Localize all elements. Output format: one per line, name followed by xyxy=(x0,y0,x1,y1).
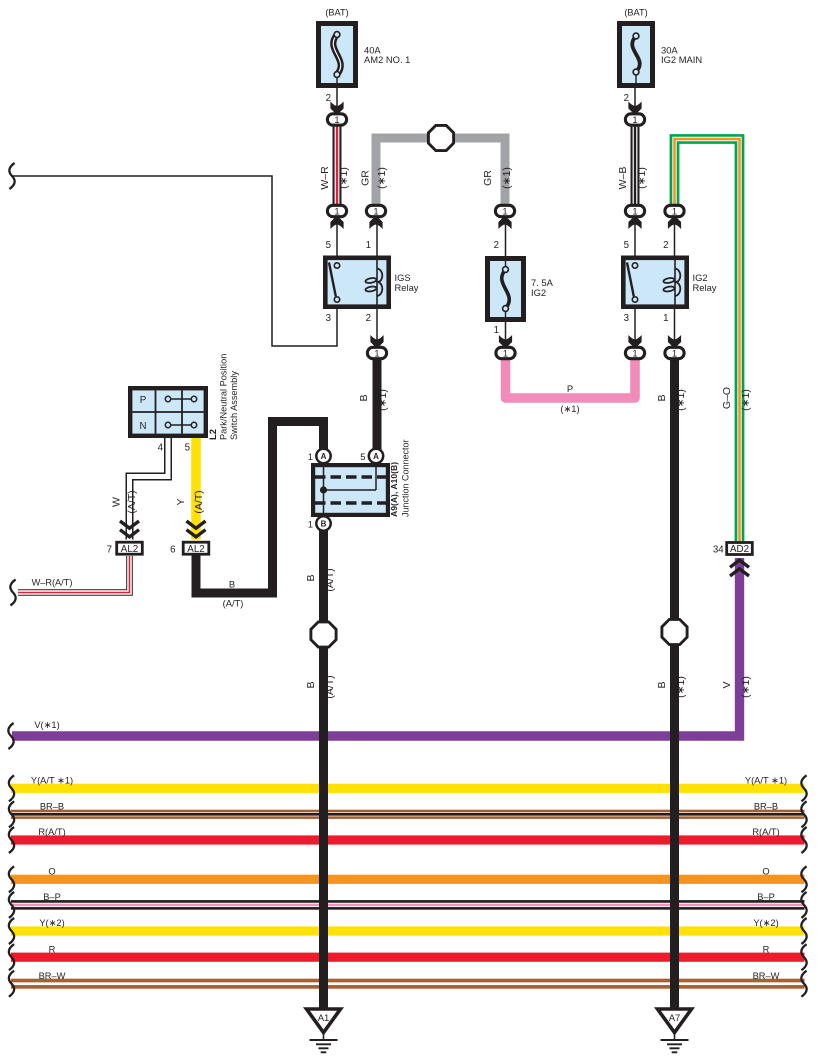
wire B black IGS pin2 to junction 5A xyxy=(373,357,382,450)
in-line connector (1) at 674.5,353 xyxy=(665,347,684,358)
svg-text:BR–B: BR–B xyxy=(40,802,64,812)
svg-text:(∗1): (∗1) xyxy=(740,676,752,698)
svg-text:3: 3 xyxy=(624,313,629,324)
svg-text:5: 5 xyxy=(185,443,190,454)
svg-text:3: 3 xyxy=(326,313,331,324)
svg-text:6: 6 xyxy=(170,545,175,556)
connector AL2 pin7 xyxy=(120,521,139,537)
junction pin B xyxy=(316,516,330,530)
svg-text:R(A/T): R(A/T) xyxy=(752,827,779,837)
relay IG2 xyxy=(621,256,689,310)
svg-text:(BAT): (BAT) xyxy=(624,8,647,18)
svg-text:1: 1 xyxy=(663,313,668,324)
svg-text:Y(∗2): Y(∗2) xyxy=(39,918,64,928)
svg-text:B: B xyxy=(656,394,668,401)
in-line connector (1) at 505.5,353 xyxy=(496,347,515,358)
svg-text:(∗1): (∗1) xyxy=(338,167,350,189)
switch L2 Park/Neutral Position Switch Assembly xyxy=(128,386,208,438)
svg-text:2: 2 xyxy=(624,93,629,104)
wire W-R (white/red) from connector to IGS relay xyxy=(333,124,342,208)
ground A1 xyxy=(307,1009,341,1052)
svg-text:(∗1): (∗1) xyxy=(501,167,513,189)
svg-text:2: 2 xyxy=(366,313,371,324)
in-line connector (1) at 635,119.5 xyxy=(625,114,644,125)
in-line connector (1) at 505,211 xyxy=(495,205,514,216)
fuse 40A AM2 NO.1 xyxy=(316,21,358,88)
in-line connector (1) at 337,211 xyxy=(327,205,346,216)
svg-text:Switch Assembly: Switch Assembly xyxy=(229,371,239,440)
svg-text:Y(∗2): Y(∗2) xyxy=(753,918,778,928)
svg-text:R: R xyxy=(763,944,770,954)
squiggle: V wire left end xyxy=(8,723,13,749)
svg-text:O: O xyxy=(48,867,55,877)
svg-text:A: A xyxy=(321,452,327,461)
svg-text:B: B xyxy=(358,394,370,401)
in-line connector (1) at 337,119.5 xyxy=(327,114,346,125)
svg-text:V(∗1): V(∗1) xyxy=(34,720,59,730)
svg-text:R: R xyxy=(49,944,56,954)
svg-text:A7: A7 xyxy=(669,1013,681,1024)
harness wire BR-B xyxy=(11,810,805,819)
svg-text:(∗1): (∗1) xyxy=(376,167,388,189)
svg-text:5: 5 xyxy=(360,452,365,463)
svg-text:(∗1): (∗1) xyxy=(675,389,687,411)
svg-text:W–R: W–R xyxy=(319,166,331,190)
svg-text:AM2 NO. 1: AM2 NO. 1 xyxy=(364,54,410,65)
wire W-B (white/black) xyxy=(631,124,640,208)
wire: 7.5A fuse pin2 lead xyxy=(505,219,507,256)
relay IGS xyxy=(323,256,391,310)
connector AL2 pin6 xyxy=(187,521,206,537)
svg-text:4: 4 xyxy=(158,443,164,454)
junction pin A xyxy=(369,449,383,463)
svg-text:B: B xyxy=(229,579,235,590)
wire G-O (green/orange) to AD2 xyxy=(675,139,740,541)
svg-text:2: 2 xyxy=(663,240,668,251)
svg-text:GR: GR xyxy=(482,170,494,186)
svg-text:B–P: B–P xyxy=(757,892,775,902)
wire: IG2 relay pin2 lead xyxy=(674,219,676,256)
wire: IGS relay pin3 to left edge xyxy=(12,176,337,346)
svg-text:(∗1): (∗1) xyxy=(636,167,648,189)
wire: IG2 relay pin3 lead xyxy=(634,308,636,346)
svg-text:(A/T): (A/T) xyxy=(324,568,336,591)
fuse 30A IG2 MAIN xyxy=(617,21,655,88)
svg-text:Park/Neutral Position: Park/Neutral Position xyxy=(219,354,229,440)
wire: fuse AM2 pin2 to connector xyxy=(336,88,338,112)
svg-text:1: 1 xyxy=(308,520,313,531)
fuse 7.5A IG2 xyxy=(485,256,526,322)
wire B(A/T) black from AL2-6 to junction 1A xyxy=(196,422,324,594)
in-line connector (1) at 377,353 xyxy=(367,347,386,358)
wire B(A/T) junction 1B to ground A1 xyxy=(319,530,328,1009)
svg-text:BR–W: BR–W xyxy=(39,971,66,981)
in-line connector (1) at 635,353 xyxy=(625,347,644,358)
svg-text:1: 1 xyxy=(366,240,371,251)
splice octagon on GR jumper xyxy=(428,125,453,150)
svg-text:Junction Connector: Junction Connector xyxy=(401,439,411,517)
svg-text:1: 1 xyxy=(494,325,499,336)
ground A7 xyxy=(658,1009,692,1052)
svg-text:(A/T): (A/T) xyxy=(193,490,205,513)
squiggle: W-R(A/T) left end xyxy=(10,580,15,606)
wire: IG2 relay pin5 lead xyxy=(634,219,636,256)
svg-text:34: 34 xyxy=(713,545,724,556)
svg-text:(∗1): (∗1) xyxy=(675,676,687,698)
svg-text:2: 2 xyxy=(494,240,499,251)
svg-text:W–R(A/T): W–R(A/T) xyxy=(32,578,73,588)
wire: IGS relay pin1 lead xyxy=(376,219,378,256)
wire: IGS relay pin2 lead xyxy=(376,308,378,346)
wire: fuse IG2 MAIN pin2 lead xyxy=(634,88,636,112)
svg-text:Y(A/T ∗1): Y(A/T ∗1) xyxy=(31,776,73,786)
svg-text:A: A xyxy=(373,452,379,461)
svg-text:W–B: W–B xyxy=(617,167,629,190)
harness wire Y(&#8727;2) xyxy=(11,926,805,935)
svg-text:(∗1): (∗1) xyxy=(377,389,389,411)
wire GR gray jumper with splice xyxy=(376,138,505,207)
svg-text:(∗1): (∗1) xyxy=(560,403,579,414)
wire W white L2 pin4 to AL2-7 xyxy=(130,437,169,540)
splice octagon on left ground wire xyxy=(311,622,336,647)
svg-text:BR–W: BR–W xyxy=(753,971,780,981)
svg-text:B–P: B–P xyxy=(43,892,61,902)
harness wire B-P xyxy=(11,900,805,910)
svg-text:Y: Y xyxy=(175,498,187,505)
svg-text:5: 5 xyxy=(624,240,629,251)
wire Y yellow L2 pin5 to AL2-6 xyxy=(191,437,201,540)
svg-text:A1: A1 xyxy=(318,1013,330,1024)
svg-text:BR–B: BR–B xyxy=(754,802,778,812)
junction connector A9(A), A10(B) xyxy=(311,463,390,517)
harness wire O xyxy=(11,875,805,884)
connector AD2 pin34 xyxy=(730,560,749,576)
svg-text:Relay: Relay xyxy=(693,282,717,293)
wire: 7.5A fuse pin1 lead xyxy=(505,321,507,346)
svg-text:Relay: Relay xyxy=(395,282,419,293)
svg-text:IG2 MAIN: IG2 MAIN xyxy=(661,54,702,65)
wire: IG2 relay pin1 lead xyxy=(674,308,676,346)
svg-text:P: P xyxy=(140,395,146,406)
harness wire Y(A/T &#8727;1) xyxy=(11,784,805,793)
svg-text:AD2: AD2 xyxy=(730,544,749,555)
harness wire R(A/T) xyxy=(11,835,805,844)
svg-text:B: B xyxy=(305,681,317,688)
svg-text:L2: L2 xyxy=(207,429,218,440)
splice octagon on right ground wire xyxy=(662,619,687,644)
svg-text:(A/T): (A/T) xyxy=(223,598,244,609)
in-line connector (1) at 635,211 xyxy=(625,205,644,216)
svg-text:O: O xyxy=(762,867,769,877)
svg-text:N: N xyxy=(140,421,147,432)
wire V purple from AD2 to left edge xyxy=(12,558,740,736)
wire: IGS relay pin5 lead xyxy=(336,219,338,256)
svg-text:2: 2 xyxy=(326,93,331,104)
svg-text:G–O: G–O xyxy=(721,387,733,409)
svg-text:W: W xyxy=(111,497,123,507)
junction pin A xyxy=(316,449,330,463)
squiggle: left edge of pin3 wire xyxy=(9,163,14,189)
svg-text:(BAT): (BAT) xyxy=(325,8,348,18)
svg-text:AL2: AL2 xyxy=(187,544,204,555)
svg-text:1: 1 xyxy=(308,452,313,463)
svg-text:B: B xyxy=(656,681,668,688)
svg-text:V: V xyxy=(721,681,733,688)
svg-text:P: P xyxy=(567,383,573,394)
wire B(*1) IG2 relay pin1 to ground A7 xyxy=(670,357,679,1009)
harness wire BR-W xyxy=(11,979,805,989)
svg-text:B: B xyxy=(305,574,317,581)
svg-text:GR: GR xyxy=(360,170,372,186)
wire W-R(A/T) from AL2-7 to left edge xyxy=(18,556,130,593)
harness wire R xyxy=(11,953,805,962)
wire P pink jumper IG2 fuse to IG2 relay coil xyxy=(506,357,636,398)
svg-text:(A/T): (A/T) xyxy=(126,490,138,513)
svg-text:Y(A/T ∗1): Y(A/T ∗1) xyxy=(745,776,787,786)
svg-text:R(A/T): R(A/T) xyxy=(38,827,65,837)
svg-text:7: 7 xyxy=(107,545,112,556)
in-line connector (1) at 674.5,211 xyxy=(665,205,684,216)
in-line connector (1) at 376,211 xyxy=(366,205,385,216)
svg-text:A9(A), A10(B): A9(A), A10(B) xyxy=(389,462,399,517)
svg-text:(∗1): (∗1) xyxy=(740,389,752,411)
svg-text:B: B xyxy=(321,520,327,529)
svg-text:IG2: IG2 xyxy=(531,287,546,298)
svg-text:5: 5 xyxy=(326,240,331,251)
svg-text:(A/T): (A/T) xyxy=(324,675,336,698)
svg-text:AL2: AL2 xyxy=(121,544,138,555)
